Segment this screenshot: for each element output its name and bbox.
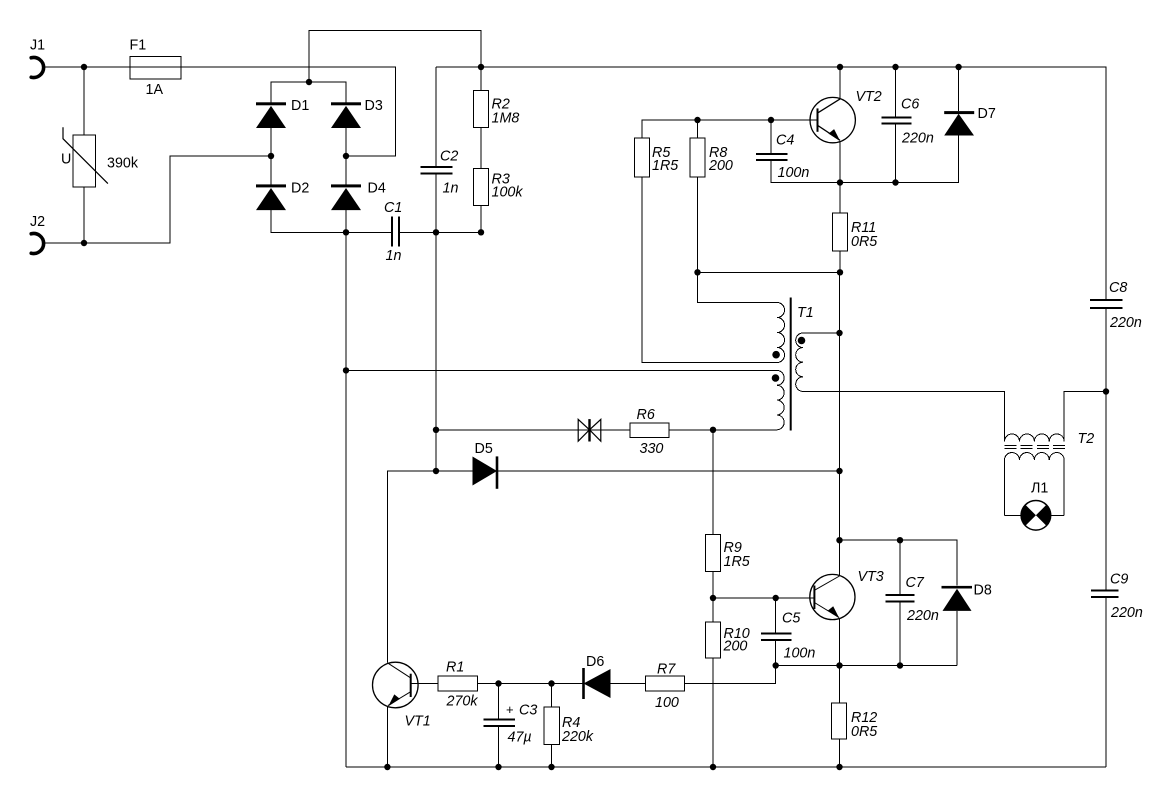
wire C7 bottom stub [899,602,901,666]
svg-text:1R5: 1R5 [724,554,750,570]
wire VT3 collector row to C7 and D8 [840,540,958,586]
node right rail T2 [1103,388,1109,394]
capacitor C7 [886,595,915,601]
resistor R11 [833,213,848,251]
diode D6 [584,668,611,699]
svg-text:F1: F1 [130,38,147,54]
wire VT1 emitter to bottom rail [386,707,388,767]
svg-text:C2: C2 [440,149,458,165]
node J1 junction [81,64,87,70]
svg-text:D6: D6 [586,654,604,670]
wire R12 bottom to rail [839,739,841,767]
svg-text:T1: T1 [797,305,814,321]
wire C7 top stub [899,540,901,594]
svg-text:D1: D1 [291,98,309,114]
wire C4 bottom to emitter row [771,136,959,183]
svg-text:R7: R7 [657,661,676,677]
wire VT1 collector up to D5 row [387,471,472,663]
capacitor C3 [484,720,516,726]
wire D7 top stub [958,67,960,111]
node T1 winding3 top [836,330,842,336]
diode D3 [331,102,361,128]
node C3 top [495,680,501,686]
svg-text:390k: 390k [107,156,139,172]
diode D1 [256,102,286,128]
connector J1 [31,57,43,77]
svg-text:220n: 220n [1109,315,1142,331]
wire row R8-R11 [698,271,841,273]
wire right rail C8 to C9 [1105,309,1107,590]
svg-text:C1: C1 [384,200,402,216]
transformer T1 winding 1 (upper left) [777,303,785,363]
svg-text:C5: C5 [782,611,800,627]
svg-text:+: + [506,702,514,717]
diode D4 [331,184,361,210]
node T1 winding1 polarity dot [772,351,780,359]
svg-text:T2: T2 [1078,431,1095,447]
transistor VT2 [810,97,855,142]
resistor R6 [630,423,669,437]
wire lamp left lead [1005,514,1022,516]
wire C3 top stub [498,684,500,720]
wire VT1 base to R1 [411,683,438,685]
wire VT3 emitter row [776,665,957,667]
svg-text:C7: C7 [906,575,925,591]
node base row C4 [768,117,774,123]
node R11 bottom [837,269,843,275]
transformer T1 core [790,298,792,431]
wire T1 winding1 exit to R5 bottom [642,177,777,362]
node D5 row column [836,468,842,474]
wire bottom rail [346,766,1106,768]
svg-text:330: 330 [640,441,664,457]
node rail R10 [710,764,716,770]
node rail R2 top [478,64,484,70]
capacitor C2 [421,167,453,173]
svg-text:47µ: 47µ [508,730,532,746]
wire R11 bottom to row [839,251,841,272]
node rail D7 [955,64,961,70]
wire R1 to C3 R4 D6 [478,683,584,685]
connector J2 [31,234,43,254]
wire T2 secondary left down to lamp [1004,460,1006,515]
wire R4 bottom stub [551,745,553,768]
wire R10 top [712,598,714,622]
svg-text:220k: 220k [561,729,594,745]
resistor R8 [690,138,705,177]
node rail VT2 collector [837,64,843,70]
wire DC+ top rail [436,67,1106,299]
wire R10 bottom to rail [712,658,714,767]
wire C6 top stub [895,67,897,117]
wire D1 bottom to left mid node to D2 top [270,128,272,186]
wire D3 bottom to right mid node to D4 top [345,128,347,186]
transformer T2 secondary winding [1005,453,1065,460]
node bridge bottom [343,229,349,235]
wire J1 junction down to varistor [83,67,85,135]
resistor R5 [635,138,650,177]
wire T2 primary right side to right rail [1064,392,1106,442]
diode D2 [256,184,286,210]
node rail C3 [495,764,501,770]
diode D7 [944,111,974,135]
resistor R4 [544,707,560,745]
svg-text:C3: C3 [519,702,537,718]
svg-text:D3: D3 [365,98,383,114]
node rail VT1 emitter [384,764,390,770]
wire R2 to R3 [480,127,482,168]
fuse F1 [130,57,181,80]
node left vertical T1 winding2 [343,367,349,373]
resistor R1 [438,676,478,691]
node C7 top [897,537,903,543]
node C6 bottom [892,179,898,185]
wire lamp right lead [1050,514,1064,516]
transistor VT3 [810,574,855,619]
wire C5 top stub [775,598,777,633]
wire C6 bottom stub [895,124,897,182]
wire T1 right winding top to VT2-VT3 column [803,332,840,334]
wire bridge bottom: D2, D4 [271,210,346,232]
capacitor C1 [392,217,399,247]
node R3 bottom [478,229,484,235]
wire VT3 base row [713,597,814,599]
svg-text:D2: D2 [291,181,309,197]
wire R6 row from C2 column to diac [436,429,630,431]
svg-text:C9: C9 [1110,571,1128,587]
svg-text:100k: 100k [492,185,524,201]
wire varistor to J2 [83,187,85,243]
node emitter VT2 [837,179,843,185]
wire VT2 emitter down to R11 [839,141,841,213]
node bridge right mid [343,153,349,159]
svg-text:200: 200 [723,639,748,655]
svg-text:U: U [61,152,71,168]
node rail C6 [892,64,898,70]
resistor R12 [832,703,847,739]
svg-text:D4: D4 [368,181,386,197]
node C2 column D5 row [433,468,439,474]
wire VT2 collector to rail [839,67,841,99]
wire J1 to fuse F1 and bridge AC input [43,67,396,156]
node C2 column R6 row [433,427,439,433]
wire D8 bottom stub [956,611,958,666]
wire base row VT2: R5, R8, C4, base [642,120,818,138]
capacitor C8 [1090,300,1122,308]
svg-text:J1: J1 [30,38,45,54]
svg-text:1n: 1n [443,181,459,197]
wire R8 top stub [697,120,699,138]
resistor R2 [474,91,489,128]
resistor R3 [474,169,489,206]
wire right rail C9 to bottom rail [1105,598,1107,767]
node bridge top [306,79,312,85]
wire bridge top node up and over to DC+ rail [309,31,481,83]
svg-text:VT3: VT3 [858,569,884,585]
wire R6 to T1 winding2 bottom [669,429,777,431]
capacitor C5 [761,634,792,640]
svg-text:220n: 220n [1110,605,1143,621]
svg-text:200: 200 [708,158,733,174]
wire R7 to emitter row corner [685,666,776,684]
svg-text:1M8: 1M8 [492,110,520,126]
svg-text:270k: 270k [446,694,479,710]
svg-text:D5: D5 [475,441,493,457]
wire R9 bottom to VT3 base row [712,572,714,599]
wire R2 top [480,67,482,91]
wire C1 to C2 bottom and R3 bottom [400,205,482,232]
wire C2 bottom down to R6 row and D5 row [435,174,437,471]
diode D8 [942,586,973,611]
node T1 winding2 polarity dot [772,374,780,382]
node rail R12 [836,764,842,770]
node R4 top [548,680,554,686]
node C7 bottom [897,662,903,668]
node C1-C2 [433,229,439,235]
wire C4 top stub [770,120,772,153]
svg-text:J2: J2 [30,214,45,230]
svg-text:220n: 220n [906,608,939,624]
capacitor C6 [881,118,911,124]
wire T1 right winding bottom to T2 primary and right rail [803,392,1005,442]
svg-text:C8: C8 [1109,280,1127,296]
node J2 junction [81,240,87,246]
svg-text:0R5: 0R5 [851,234,877,250]
svg-text:C4: C4 [776,132,794,148]
resistor R10 [705,622,720,658]
svg-text:D7: D7 [978,106,996,122]
wire D6 to R7 [611,683,646,685]
transformer T2 core dashed lines [1005,446,1066,449]
node R6 R9 [710,427,716,433]
svg-text:R1: R1 [446,660,464,676]
diode D5 [473,456,498,488]
svg-text:VT1: VT1 [405,714,431,730]
wire T2 secondary right down to lamp [1063,460,1065,515]
svg-text:1R5: 1R5 [652,158,678,174]
node T1 winding3 polarity dot [798,337,806,345]
svg-text:100n: 100n [778,165,810,181]
diac [578,419,601,441]
wire R4 top stub [551,684,553,708]
capacitor C4 [756,154,788,160]
svg-text:0R5: 0R5 [851,724,877,740]
transformer T2 primary winding [1005,434,1065,441]
transformer T1 winding 2 (lower left) [777,370,784,429]
svg-text:1n: 1n [386,248,402,264]
transistor VT1 [373,662,419,708]
wire VT3 emitter down to R12 [839,619,841,704]
wire C2 branch top [435,67,437,166]
wire D5 to VT2-VT3 column [497,470,840,472]
wire R8 bottom down, row to R11, and to T1 winding 1 [698,177,778,302]
node bridge left mid [268,153,274,159]
wire bridge bottom to C1 [346,231,391,233]
svg-text:Л1: Л1 [1031,481,1048,497]
varistor U [63,127,108,187]
wire R9 top [712,430,714,535]
node C5 bottom [773,662,779,668]
resistor R9 [705,535,720,572]
wire bridge bottom node down left vertical to bottom rail [345,232,347,767]
wire J2 to bridge left mid node [43,156,271,243]
svg-text:220n: 220n [901,131,934,147]
transformer T1 winding 3 (right) [796,333,803,391]
node R8 bottom [694,269,700,275]
wire bridge top: D1 top, D3 top, node [271,82,346,104]
svg-text:VT2: VT2 [856,89,882,105]
node VT3 emitter [836,662,842,668]
svg-text:100n: 100n [784,645,816,661]
node rail R4 [548,764,554,770]
node C5 top [773,595,779,601]
svg-text:1A: 1A [146,82,164,98]
capacitor C9 [1091,591,1118,598]
svg-text:D8: D8 [974,583,992,599]
svg-text:R6: R6 [637,407,655,423]
wire C5 bottom stub [775,641,777,666]
svg-text:C6: C6 [901,97,919,113]
svg-text:100: 100 [655,695,679,711]
wire left vertical to T1 winding2 entry [346,369,777,371]
node VT3 base R9 R10 [710,595,716,601]
wire C3 bottom stub [498,727,500,768]
resistor R7 [646,676,685,691]
wire VT2-VT3 column: R11 row down to VT3 collector [839,272,841,576]
lamp L1 [1021,501,1051,531]
node VT3 collector [836,537,842,543]
node base row R8 [694,117,700,123]
